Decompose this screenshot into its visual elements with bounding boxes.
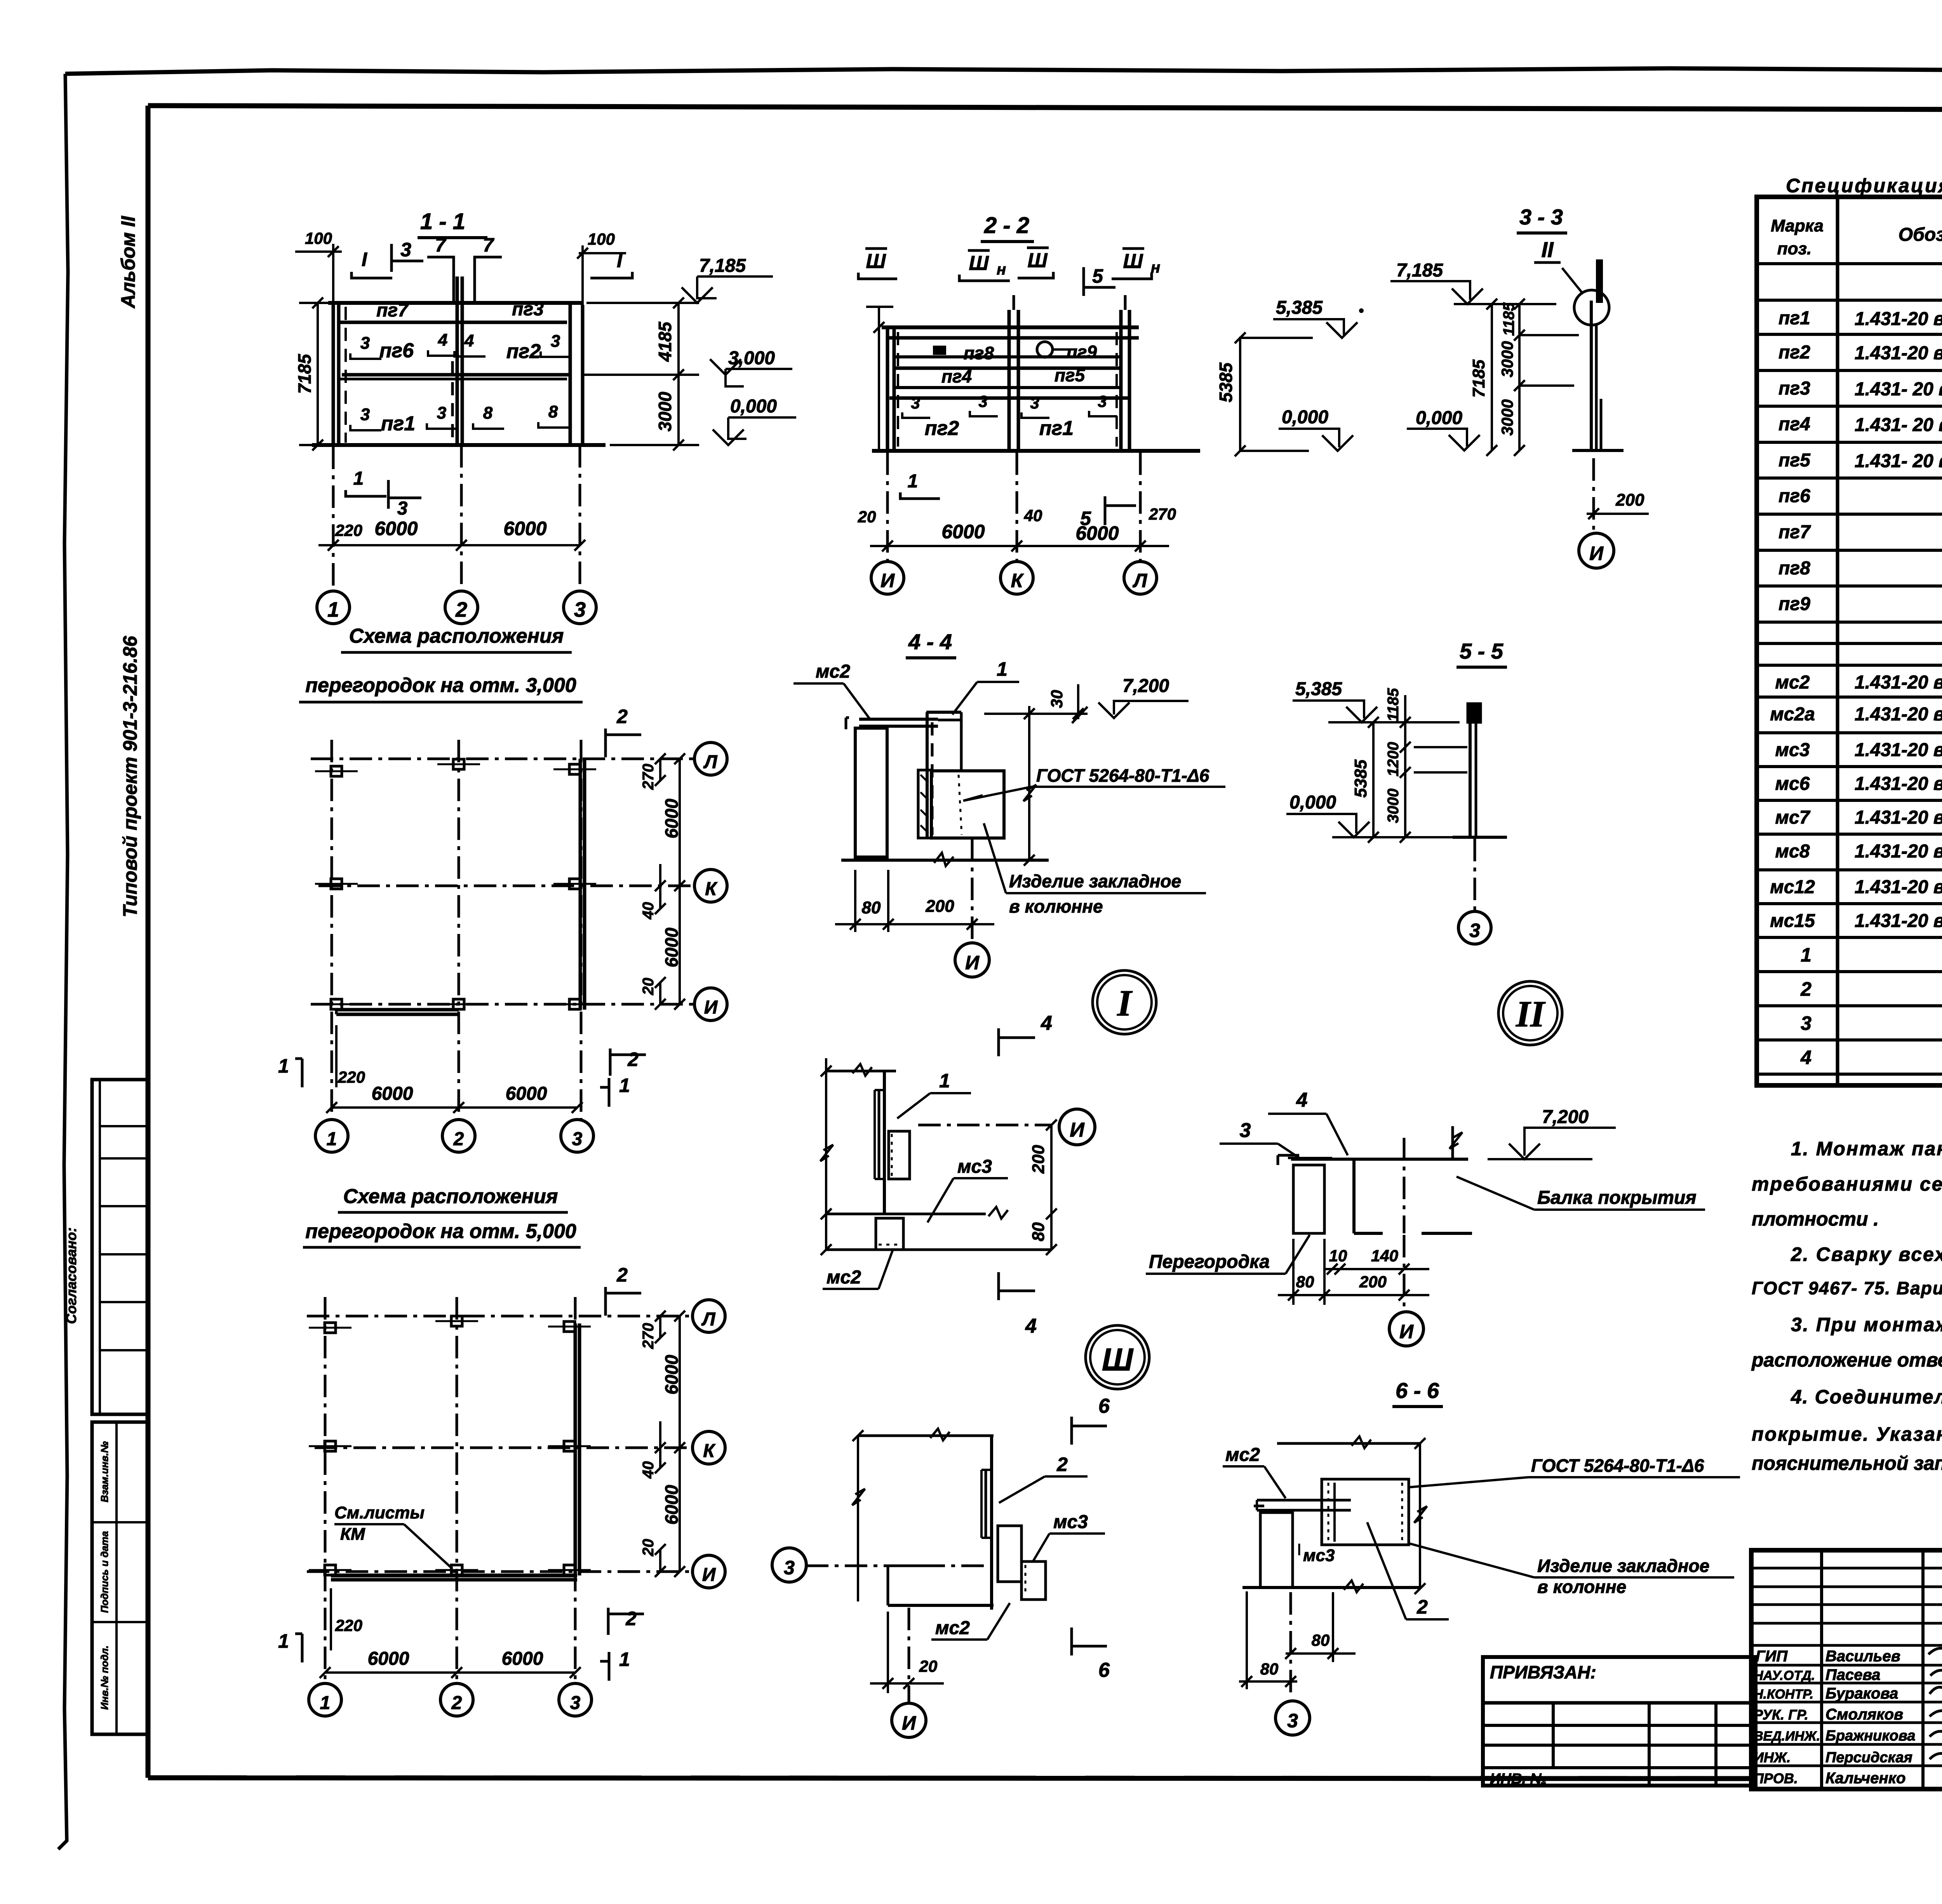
grid axes dash-dot bbox=[331, 740, 333, 1119]
svg-text:80: 80 bbox=[1260, 1660, 1279, 1678]
svg-text:пг1: пг1 bbox=[1778, 308, 1810, 329]
beam support detail (балка покрытия) bbox=[1146, 1089, 1705, 1346]
panel vertical bbox=[883, 1071, 886, 1214]
svg-text:Л: Л bbox=[703, 752, 718, 772]
sidebar stamp box lower (Взам.инв / Подпись и дата / Инв.подл) bbox=[92, 1422, 148, 1734]
svg-text:1185: 1185 bbox=[1385, 688, 1402, 722]
partition walls plan2 bbox=[331, 1574, 577, 1577]
bracket мс bbox=[889, 1131, 910, 1179]
svg-text:1.431-20 вып. 1: 1.431-20 вып. 1 bbox=[1855, 309, 1942, 329]
svg-text:6000: 6000 bbox=[941, 521, 985, 543]
svg-text:Ш: Ш bbox=[1102, 1342, 1134, 1377]
column axis3 bbox=[569, 305, 572, 445]
svg-text:пг3: пг3 bbox=[512, 299, 544, 320]
svg-text:5385: 5385 bbox=[1216, 362, 1236, 402]
grid circles 1 2 3 bbox=[317, 591, 350, 624]
dim 5385 right bbox=[1239, 338, 1241, 451]
svg-text:И: И bbox=[965, 952, 980, 974]
svg-text:Изделие закладное: Изделие закладное bbox=[1537, 1556, 1709, 1576]
svg-text:4: 4 bbox=[438, 330, 447, 350]
svg-text:мс2: мс2 bbox=[816, 661, 850, 682]
axis И circle beam detail bbox=[1403, 1235, 1406, 1312]
svg-text:мс2: мс2 bbox=[935, 1618, 970, 1638]
svg-text:40: 40 bbox=[640, 1461, 657, 1479]
svg-text:Типовой проект 901-3-216.86: Типовой проект 901-3-216.86 bbox=[119, 635, 141, 917]
svg-text:1.431-20 вып. 7: 1.431-20 вып. 7 bbox=[1855, 807, 1942, 828]
top line bbox=[826, 1070, 896, 1073]
svg-text:мс3: мс3 bbox=[957, 1156, 992, 1177]
svg-text:5,385: 5,385 bbox=[1295, 679, 1342, 699]
svg-text:7185: 7185 bbox=[294, 353, 315, 394]
svg-text:4: 4 bbox=[1041, 1012, 1052, 1035]
mid line bbox=[826, 1213, 986, 1215]
bottom 6 mark bbox=[1072, 1628, 1107, 1655]
svg-text:20: 20 bbox=[640, 978, 657, 996]
svg-text:2: 2 bbox=[451, 1693, 462, 1713]
grid circles 1 2 3 plan1 bbox=[315, 1120, 348, 1152]
svg-text:пг6: пг6 bbox=[1778, 486, 1810, 506]
svg-text:ПРИВЯЗАН:: ПРИВЯЗАН: bbox=[1490, 1662, 1596, 1682]
svg-text:ГОСТ 9467- 75. Варить по в: ГОСТ 9467- 75. Варить по всему периметру… bbox=[1752, 1278, 1942, 1298]
svg-text:мс2: мс2 bbox=[1225, 1445, 1260, 1465]
panel vertical bbox=[990, 1436, 993, 1610]
grid circle И 3-3 bbox=[1579, 533, 1614, 568]
svg-text:3. При монтаже панелей пе: 3. При монтаже панелей перегородок обрат… bbox=[1791, 1314, 1942, 1335]
svg-text:мс2а: мс2а bbox=[1770, 704, 1815, 725]
svg-text:2: 2 bbox=[616, 1264, 628, 1286]
svg-text:пг2: пг2 bbox=[925, 417, 959, 440]
svg-text:4185: 4185 bbox=[655, 321, 675, 362]
svg-text:Изделие закладное: Изделие закладное bbox=[1009, 871, 1181, 891]
svg-text:6000: 6000 bbox=[374, 518, 418, 539]
svg-text:3: 3 bbox=[400, 239, 411, 261]
svg-text:3: 3 bbox=[784, 1557, 795, 1579]
svg-text:0,000: 0,000 bbox=[1289, 792, 1336, 813]
svg-text:требованиями серии 1.431-: требованиями серии 1.431-20 вып. 0, 6 из… bbox=[1752, 1173, 1942, 1195]
svg-text:Васильев: Васильев bbox=[1825, 1648, 1900, 1665]
detail circle I bbox=[1093, 970, 1156, 1034]
svg-text:2: 2 bbox=[625, 1608, 637, 1629]
bracket + мс3 bbox=[998, 1526, 1021, 1582]
svg-text:20: 20 bbox=[919, 1657, 938, 1675]
svg-text:3000: 3000 bbox=[1498, 341, 1516, 377]
svg-text:пг1: пг1 bbox=[1039, 417, 1074, 440]
svg-text:3: 3 bbox=[574, 598, 586, 621]
wall 3-3 bbox=[1590, 301, 1593, 450]
svg-text:1: 1 bbox=[619, 1648, 630, 1670]
dims 80 200 bbox=[854, 870, 856, 932]
dims right plan2 bbox=[659, 1316, 661, 1338]
specification table grid bbox=[1757, 197, 1942, 1085]
top slab bar bbox=[859, 718, 938, 721]
svg-text:3: 3 bbox=[551, 332, 560, 351]
beam body bbox=[1352, 1159, 1356, 1233]
top line 6-6 bbox=[1277, 1442, 1420, 1445]
svg-text:в колонне: в колонне bbox=[1537, 1577, 1626, 1597]
svg-text:6000: 6000 bbox=[506, 1083, 547, 1104]
dim 7185 left bbox=[317, 303, 319, 445]
svg-text:3: 3 bbox=[360, 334, 370, 353]
svg-text:140: 140 bbox=[1371, 1247, 1398, 1265]
svg-text:покрытие. Указания по соста: покрытие. Указания по составу и нанесени… bbox=[1752, 1423, 1942, 1445]
bottom line bbox=[826, 1248, 1051, 1251]
svg-text:1185: 1185 bbox=[1500, 302, 1517, 336]
svg-text:6000: 6000 bbox=[502, 1648, 543, 1669]
svg-text:200: 200 bbox=[1029, 1145, 1048, 1174]
plan scheme at elev 3.000 bbox=[278, 625, 727, 1152]
svg-text:Ш: Ш bbox=[866, 250, 886, 273]
dim 6000/6000 bottom 1-1 bbox=[333, 544, 580, 546]
svg-text:Марка: Марка bbox=[1771, 216, 1824, 235]
svg-text:1.431-20 вып. 7: 1.431-20 вып. 7 bbox=[1855, 841, 1942, 862]
axis 3 circle 6-6 bbox=[1289, 1592, 1292, 1693]
svg-text:Бражникова: Бражникова bbox=[1825, 1728, 1915, 1744]
svg-text:270: 270 bbox=[640, 1323, 657, 1349]
svg-text:НАУ.ОТД.: НАУ.ОТД. bbox=[1754, 1668, 1815, 1683]
ground 5-5 bbox=[1453, 836, 1507, 839]
svg-text:7: 7 bbox=[435, 234, 447, 256]
long dim line right bbox=[1028, 706, 1030, 860]
notes paragraphs bbox=[1751, 1138, 1942, 1474]
svg-text:ПРОВ.: ПРОВ. bbox=[1754, 1770, 1798, 1786]
svg-text:И: И bbox=[881, 570, 895, 591]
torn paper left edge bbox=[58, 74, 68, 1849]
svg-text:мс2: мс2 bbox=[1775, 672, 1810, 693]
svg-text:4. Соединительные изделия: 4. Соединительные изделия должны иметь а… bbox=[1791, 1386, 1942, 1408]
svg-text:Перегородка: Перегородка bbox=[1149, 1252, 1270, 1272]
torn paper top edge bbox=[65, 67, 1942, 74]
svg-text:I: I bbox=[362, 249, 367, 270]
svg-text:ГИП: ГИП bbox=[1756, 1648, 1788, 1665]
column squares plan2 bbox=[325, 1323, 336, 1333]
svg-text:пояснительной записке и н: пояснительной записке и на листе 4 . bbox=[1752, 1452, 1942, 1474]
svg-text:Спецификация к схеме расп: Спецификация к схеме расположения элемен… bbox=[1786, 175, 1942, 196]
detail circle III bbox=[1086, 1325, 1149, 1389]
svg-text:8: 8 bbox=[483, 403, 493, 423]
svg-text:ИНВ. №: ИНВ. № bbox=[1490, 1771, 1547, 1787]
panel 4-4 bbox=[926, 712, 929, 838]
svg-text:6000: 6000 bbox=[1075, 522, 1119, 544]
grid circles 1 2 3 plan2 bbox=[309, 1683, 341, 1716]
axis И circle bottom bbox=[908, 1608, 910, 1703]
svg-text:2: 2 bbox=[453, 1129, 464, 1149]
svg-text:Н.КОНТР.: Н.КОНТР. bbox=[1754, 1687, 1813, 1702]
small top rows left part bbox=[1751, 1567, 1942, 1570]
section 2-2 view bbox=[858, 213, 1364, 594]
svg-text:пг3: пг3 bbox=[1778, 378, 1810, 399]
svg-text:220: 220 bbox=[335, 1616, 362, 1634]
svg-text:перегородок на отм. 5,000: перегородок на отм. 5,000 bbox=[305, 1220, 576, 1243]
column 4-4 bbox=[855, 728, 887, 857]
svg-text:1: 1 bbox=[327, 1129, 337, 1149]
svg-text:80: 80 bbox=[862, 898, 881, 917]
right dim 6-6 bbox=[1419, 1443, 1421, 1589]
svg-text:3: 3 bbox=[911, 394, 920, 412]
svg-text:I: I bbox=[1117, 982, 1133, 1024]
wall 5-5 bbox=[1469, 707, 1472, 836]
svg-text:220: 220 bbox=[335, 521, 362, 539]
floors 5-5 bbox=[1414, 746, 1467, 748]
svg-text:3000: 3000 bbox=[1385, 789, 1402, 823]
column axis2 bbox=[456, 276, 459, 445]
signatures squiggles bbox=[1928, 1648, 1942, 1657]
svg-text:3: 3 bbox=[437, 403, 446, 423]
panel band lines bbox=[328, 301, 583, 305]
svg-text:И: И bbox=[704, 997, 718, 1018]
svg-text:6000: 6000 bbox=[661, 798, 682, 838]
svg-text:3: 3 bbox=[360, 405, 370, 424]
svg-text:Обозначение: Обозначение bbox=[1898, 224, 1942, 245]
grid circles Л К И plan2 bbox=[693, 1300, 725, 1332]
plan scheme at elev 5.000 bbox=[278, 1185, 725, 1716]
section 5-5 detail bbox=[1286, 639, 1507, 944]
svg-text:3 - 3: 3 - 3 bbox=[1519, 205, 1563, 229]
left dim line 2-2 bbox=[878, 307, 880, 451]
svg-text:ВЕД.ИНЖ.: ВЕД.ИНЖ. bbox=[1754, 1729, 1820, 1744]
svg-text:1.431-20 вып. 7: 1.431-20 вып. 7 bbox=[1855, 877, 1942, 897]
svg-text:пг5: пг5 bbox=[1055, 365, 1086, 385]
svg-text:Ш: Ш bbox=[969, 252, 989, 275]
svg-text:ГОСТ 5264-80-Т1-Δ6: ГОСТ 5264-80-Т1-Δ6 bbox=[1036, 765, 1209, 786]
node section at axis 3 bottom bbox=[772, 1395, 1110, 1737]
svg-text:1: 1 bbox=[619, 1075, 630, 1096]
svg-text:6000: 6000 bbox=[503, 518, 546, 539]
svg-text:Схема расположения: Схема расположения bbox=[343, 1185, 558, 1208]
svg-text:Смоляков: Смоляков bbox=[1825, 1706, 1903, 1723]
svg-text:7185: 7185 bbox=[1469, 360, 1488, 398]
panel bands 2-2 bbox=[882, 325, 1139, 329]
svg-text:3: 3 bbox=[1098, 392, 1107, 410]
svg-text:220: 220 bbox=[338, 1068, 365, 1086]
svg-text:Ш: Ш bbox=[1028, 249, 1048, 272]
svg-text:И: И bbox=[1399, 1321, 1414, 1342]
svg-text:РУК. ГР.: РУК. ГР. bbox=[1754, 1707, 1808, 1723]
svg-text:мс12: мс12 bbox=[1770, 877, 1815, 897]
svg-text:1200: 1200 bbox=[1385, 742, 1402, 777]
svg-text:100: 100 bbox=[588, 230, 615, 248]
dim 6000/6000 bottom 2-2 bbox=[887, 545, 1140, 547]
svg-text:мс3: мс3 bbox=[1053, 1512, 1088, 1532]
svg-text:2: 2 bbox=[627, 1049, 639, 1070]
svg-text:6: 6 bbox=[1098, 1395, 1110, 1417]
panel horizontal bar bbox=[1257, 1499, 1351, 1502]
svg-text:И: И bbox=[702, 1565, 716, 1585]
svg-text:6 - 6: 6 - 6 bbox=[1396, 1378, 1439, 1403]
svg-text:1.431- 20 вып. 1: 1.431- 20 вып. 1 bbox=[1855, 415, 1942, 435]
section 1-1 view bbox=[294, 209, 796, 624]
axis 3 bbox=[806, 1565, 986, 1567]
svg-text:3: 3 bbox=[572, 1129, 583, 1149]
partition walls plan1 bbox=[336, 1008, 459, 1012]
left dim bbox=[857, 1436, 859, 1601]
svg-text:40: 40 bbox=[1024, 506, 1042, 525]
svg-text:3: 3 bbox=[397, 498, 408, 519]
hatched embed strip bbox=[918, 770, 931, 838]
section 3-3 view bbox=[1390, 205, 1649, 568]
svg-text:Пасева: Пасева bbox=[1825, 1666, 1880, 1683]
svg-text:пг4: пг4 bbox=[1778, 414, 1810, 435]
svg-text:пг4: пг4 bbox=[941, 366, 972, 386]
svg-text:пг1: пг1 bbox=[381, 412, 415, 435]
svg-text:1: 1 bbox=[278, 1630, 289, 1652]
svg-text:6000: 6000 bbox=[661, 927, 682, 967]
svg-text:пг6: пг6 bbox=[379, 339, 414, 362]
svg-text:1: 1 bbox=[320, 1693, 331, 1713]
svg-text:Л: Л bbox=[701, 1309, 716, 1330]
svg-text:1: 1 bbox=[327, 598, 339, 621]
svg-text:5 - 5: 5 - 5 bbox=[1460, 639, 1503, 663]
svg-text:3000: 3000 bbox=[1498, 399, 1516, 435]
svg-text:мс8: мс8 bbox=[1775, 841, 1810, 862]
node section at axis И with мс2 мс3 bbox=[820, 1012, 1095, 1337]
svg-text:200: 200 bbox=[1615, 490, 1644, 509]
svg-text:Балка покрытия: Балка покрытия bbox=[1537, 1188, 1697, 1208]
svg-text:1: 1 bbox=[353, 468, 364, 489]
svg-text:мс6: мс6 bbox=[1775, 774, 1810, 794]
svg-text:пг5: пг5 bbox=[1778, 450, 1811, 471]
svg-text:поз.: поз. bbox=[1777, 239, 1811, 258]
svg-text:1.431-20 вып. 1: 1.431-20 вып. 1 bbox=[1855, 343, 1942, 363]
name rows bbox=[1751, 1644, 1942, 1647]
svg-text:3000: 3000 bbox=[655, 391, 675, 431]
center line beam bbox=[1403, 1138, 1406, 1233]
svg-text:1.431-20 вып. 7: 1.431-20 вып. 7 bbox=[1855, 774, 1942, 794]
svg-text:Инв.№ подл.: Инв.№ подл. bbox=[99, 1645, 110, 1710]
svg-text:Подпись и дата: Подпись и дата bbox=[99, 1531, 110, 1613]
svg-text:6000: 6000 bbox=[661, 1485, 682, 1525]
column left bbox=[1260, 1513, 1293, 1588]
svg-text:40: 40 bbox=[640, 902, 657, 920]
svg-text:мс7: мс7 bbox=[1775, 807, 1811, 828]
svg-text:3: 3 bbox=[1030, 394, 1039, 412]
svg-text:Альбом II: Альбом II bbox=[117, 216, 139, 309]
svg-text:мс2: мс2 bbox=[827, 1267, 861, 1288]
svg-text:н: н bbox=[997, 261, 1006, 278]
закладное изделие rect bbox=[931, 771, 1004, 838]
перегородка panel bbox=[1293, 1165, 1324, 1233]
svg-text:5,385: 5,385 bbox=[1276, 297, 1323, 318]
wall column axis1 bbox=[332, 303, 335, 447]
привязан box bbox=[1483, 1657, 1756, 1787]
svg-text:6000: 6000 bbox=[368, 1648, 409, 1669]
ground line 6-6 bbox=[1242, 1586, 1420, 1589]
svg-text:100: 100 bbox=[305, 229, 332, 247]
svg-text:Буракова: Буракова bbox=[1825, 1685, 1898, 1702]
svg-text:Согласовано:: Согласовано: bbox=[63, 1228, 79, 1324]
svg-text:1: 1 bbox=[278, 1055, 289, 1077]
svg-text:расположение отверстий .: расположение отверстий . bbox=[1751, 1349, 1942, 1371]
svg-text:6000: 6000 bbox=[372, 1083, 413, 1104]
svg-text:К: К bbox=[1011, 570, 1024, 591]
svg-text:пг9: пг9 bbox=[1778, 594, 1810, 614]
small squares in пг8 row bbox=[934, 347, 945, 354]
floor lines 3-3 bbox=[1521, 334, 1579, 336]
detail circle II bbox=[1498, 981, 1562, 1045]
svg-text:1.431- 20 вып. 1: 1.431- 20 вып. 1 bbox=[1855, 451, 1942, 471]
svg-text:И: И bbox=[1070, 1119, 1085, 1141]
svg-text:3: 3 bbox=[570, 1693, 581, 1713]
svg-text:ИНЖ.: ИНЖ. bbox=[1754, 1749, 1791, 1765]
drawing frame bbox=[148, 106, 1942, 111]
svg-text:4 - 4: 4 - 4 bbox=[908, 629, 952, 654]
svg-text:И: И bbox=[902, 1712, 916, 1734]
dim ladder 5-5 bbox=[1372, 722, 1375, 837]
svg-text:II: II bbox=[1541, 237, 1554, 262]
svg-text:3: 3 bbox=[1801, 1012, 1811, 1034]
dims right plan1 bbox=[659, 759, 661, 781]
section 6-6 detail bbox=[1223, 1378, 1740, 1735]
section 4-4 detail bbox=[794, 629, 1225, 977]
svg-text:3: 3 bbox=[1287, 1710, 1298, 1732]
svg-text:7,200: 7,200 bbox=[1122, 676, 1169, 696]
section mark 4 bottom bbox=[999, 1272, 1035, 1300]
axis И bbox=[918, 1124, 1051, 1127]
svg-text:1: 1 bbox=[1801, 944, 1811, 966]
svg-text:0,000: 0,000 bbox=[1282, 407, 1328, 428]
svg-text:3: 3 bbox=[1469, 920, 1480, 941]
svg-text:2: 2 bbox=[1056, 1454, 1068, 1475]
svg-text:пг2: пг2 bbox=[506, 340, 541, 363]
svg-text:5: 5 bbox=[1092, 265, 1103, 287]
svg-text:1.431- 20 вып. 1: 1.431- 20 вып. 1 bbox=[1855, 379, 1942, 400]
svg-text:2. Сварку всех соединений в: 2. Сварку всех соединений выполнять элек… bbox=[1791, 1243, 1942, 1265]
svg-text:пг8: пг8 bbox=[1778, 558, 1810, 579]
left columns bbox=[1820, 1550, 1823, 1789]
svg-text:30: 30 bbox=[1048, 690, 1066, 708]
svg-text:1. Монтаж панелей перегородо: 1. Монтаж панелей перегородок выполнять … bbox=[1791, 1138, 1942, 1160]
svg-text:200: 200 bbox=[925, 897, 954, 916]
svg-text:1: 1 bbox=[997, 658, 1008, 680]
svg-text:4: 4 bbox=[1025, 1315, 1037, 1337]
columns of 2-2 bbox=[886, 327, 889, 451]
svg-text:80: 80 bbox=[1312, 1631, 1330, 1649]
svg-text:1.431-20 вып. 7: 1.431-20 вып. 7 bbox=[1855, 911, 1942, 931]
svg-text:1.431-20 вып. 7: 1.431-20 вып. 7 bbox=[1855, 740, 1942, 760]
svg-text:Л: Л bbox=[1133, 570, 1148, 591]
svg-text:И: И bbox=[1589, 543, 1604, 564]
svg-text:Схема расположения: Схема расположения bbox=[349, 625, 564, 647]
svg-text:8: 8 bbox=[548, 402, 558, 421]
svg-text:5385: 5385 bbox=[1351, 760, 1370, 798]
мс2 block bbox=[876, 1218, 903, 1250]
svg-text:К: К bbox=[703, 1441, 716, 1461]
svg-text:4: 4 bbox=[1800, 1047, 1811, 1068]
svg-text:2: 2 bbox=[455, 598, 467, 621]
svg-text:6000: 6000 bbox=[661, 1355, 682, 1395]
svg-text:3: 3 bbox=[978, 392, 987, 410]
svg-text:2: 2 bbox=[616, 706, 628, 727]
svg-text:мс3: мс3 bbox=[1775, 740, 1810, 760]
svg-text:4: 4 bbox=[464, 331, 474, 350]
svg-text:пг7: пг7 bbox=[376, 300, 409, 321]
grid circles И К Л bbox=[871, 562, 904, 594]
dims right of 1-1 bbox=[677, 303, 680, 445]
svg-text:7: 7 bbox=[483, 234, 494, 256]
svg-text:0,000: 0,000 bbox=[1416, 408, 1462, 428]
закладное изделие square bbox=[1322, 1479, 1409, 1545]
grid axes dash-dot plan2 bbox=[324, 1297, 327, 1683]
svg-text:200: 200 bbox=[1359, 1273, 1387, 1291]
svg-text:пг8: пг8 bbox=[964, 343, 994, 363]
top line bbox=[858, 1435, 994, 1437]
svg-text:II: II bbox=[1516, 993, 1546, 1035]
left dim line bbox=[825, 1058, 827, 1250]
svg-text:мс3: мс3 bbox=[1303, 1546, 1335, 1565]
svg-text:0,000: 0,000 bbox=[730, 396, 777, 417]
svg-text:7,185: 7,185 bbox=[699, 256, 746, 276]
title block (штамп) bbox=[1751, 1550, 1942, 1859]
axis 3 circle 5-5 bbox=[1474, 839, 1476, 911]
